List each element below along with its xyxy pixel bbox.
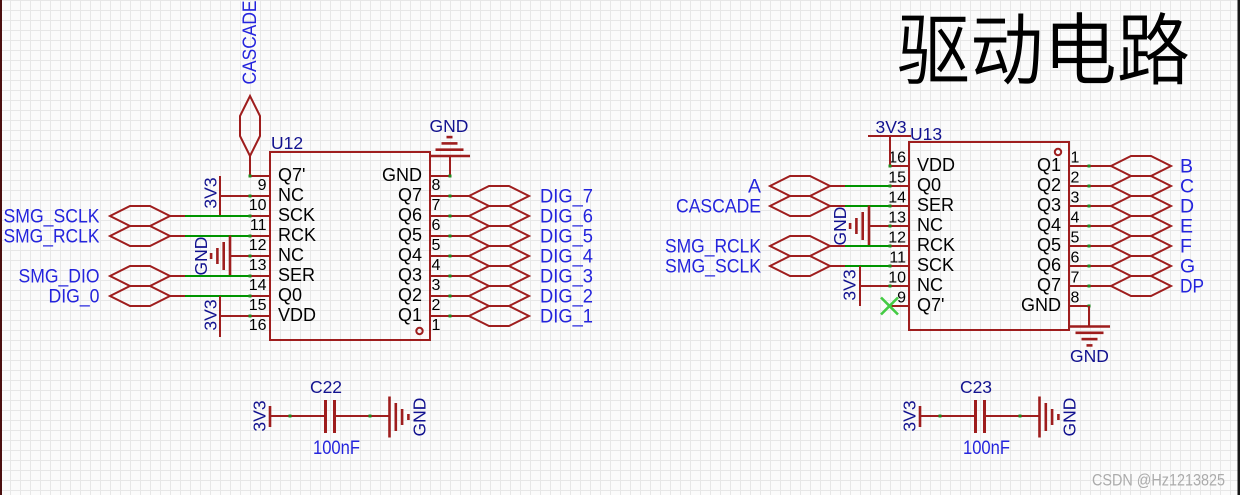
svg-text:11: 11 (889, 250, 906, 267)
svg-text:1: 1 (432, 317, 441, 334)
svg-text:SMG_SCLK: SMG_SCLK (665, 256, 761, 278)
svg-text:100nF: 100nF (963, 437, 1010, 459)
svg-text:GND: GND (410, 398, 430, 437)
svg-text:SMG_RCLK: SMG_RCLK (665, 236, 761, 258)
svg-text:DIG_5: DIG_5 (540, 226, 593, 248)
svg-text:10: 10 (249, 197, 267, 214)
svg-text:SMG_RCLK: SMG_RCLK (4, 226, 100, 248)
svg-text:10: 10 (888, 270, 906, 287)
svg-text:2: 2 (432, 297, 441, 314)
svg-text:CSDN @Hz1213825: CSDN @Hz1213825 (1092, 471, 1225, 490)
svg-text:Q4: Q4 (398, 245, 422, 265)
svg-text:Q2: Q2 (1037, 175, 1061, 195)
svg-text:3: 3 (1071, 190, 1080, 207)
svg-text:A: A (748, 176, 761, 198)
svg-text:14: 14 (249, 277, 267, 294)
svg-text:SER: SER (278, 265, 315, 285)
svg-text:15: 15 (888, 170, 906, 187)
svg-text:3V3: 3V3 (840, 269, 860, 300)
svg-text:Q1: Q1 (398, 305, 422, 325)
svg-text:3V3: 3V3 (201, 299, 221, 330)
svg-text:CASCADE: CASCADE (239, 1, 261, 85)
svg-text:GND: GND (382, 165, 422, 185)
svg-text:DIG_1: DIG_1 (540, 306, 593, 328)
svg-text:6: 6 (1071, 250, 1080, 267)
svg-text:VDD: VDD (278, 305, 316, 325)
svg-text:B: B (1180, 156, 1193, 178)
svg-text:U12: U12 (271, 133, 303, 153)
svg-text:16: 16 (249, 317, 267, 334)
svg-text:Q3: Q3 (1037, 195, 1061, 215)
svg-text:11: 11 (250, 217, 267, 234)
svg-text:Q6: Q6 (398, 205, 422, 225)
svg-text:GND: GND (191, 237, 211, 276)
svg-text:Q1: Q1 (1037, 155, 1061, 175)
svg-text:SER: SER (917, 195, 954, 215)
svg-text:Q2: Q2 (398, 285, 422, 305)
svg-text:RCK: RCK (278, 225, 316, 245)
svg-text:14: 14 (888, 190, 906, 207)
svg-text:RCK: RCK (917, 235, 955, 255)
svg-text:GND: GND (1070, 346, 1109, 366)
svg-text:3V3: 3V3 (250, 400, 270, 431)
svg-text:SCK: SCK (278, 205, 315, 225)
svg-text:F: F (1180, 236, 1192, 258)
svg-text:SMG_SCLK: SMG_SCLK (4, 206, 100, 228)
svg-text:Q5: Q5 (398, 225, 422, 245)
svg-text:VDD: VDD (917, 155, 955, 175)
svg-text:3V3: 3V3 (201, 177, 221, 208)
svg-text:DIG_0: DIG_0 (49, 286, 100, 308)
svg-text:E: E (1180, 216, 1193, 238)
svg-text:5: 5 (432, 237, 441, 254)
svg-text:SCK: SCK (917, 255, 954, 275)
svg-text:Q3: Q3 (398, 265, 422, 285)
svg-text:GND: GND (1060, 398, 1080, 437)
svg-text:DIG_7: DIG_7 (540, 186, 593, 208)
svg-text:3V3: 3V3 (876, 117, 907, 137)
svg-text:DIG_2: DIG_2 (540, 286, 593, 308)
svg-text:Q4: Q4 (1037, 215, 1061, 235)
svg-text:D: D (1180, 196, 1194, 218)
svg-text:Q0: Q0 (917, 175, 941, 195)
svg-text:12: 12 (249, 237, 267, 254)
svg-text:7: 7 (432, 197, 441, 214)
svg-text:Q7': Q7' (917, 295, 944, 315)
svg-text:Q5: Q5 (1037, 235, 1061, 255)
svg-text:NC: NC (278, 245, 304, 265)
svg-text:3: 3 (432, 277, 441, 294)
svg-text:DIG_4: DIG_4 (540, 246, 593, 268)
svg-text:GND: GND (430, 116, 469, 136)
svg-text:100nF: 100nF (313, 437, 360, 459)
svg-text:8: 8 (432, 177, 441, 194)
svg-text:U13: U13 (910, 124, 942, 144)
svg-text:DP: DP (1180, 276, 1204, 298)
svg-text:7: 7 (1071, 270, 1080, 287)
svg-text:4: 4 (1071, 210, 1080, 227)
svg-text:C23: C23 (960, 377, 992, 397)
svg-text:Q0: Q0 (278, 285, 302, 305)
svg-text:DIG_3: DIG_3 (540, 266, 593, 288)
svg-text:5: 5 (1071, 230, 1080, 247)
svg-text:3V3: 3V3 (900, 400, 920, 431)
svg-text:2: 2 (1071, 170, 1080, 187)
svg-text:SMG_DIO: SMG_DIO (19, 266, 100, 288)
svg-text:6: 6 (432, 217, 441, 234)
svg-text:9: 9 (258, 177, 267, 194)
svg-text:13: 13 (249, 257, 267, 274)
svg-text:G: G (1180, 256, 1195, 278)
svg-text:8: 8 (1071, 290, 1080, 307)
svg-text:Q7: Q7 (398, 185, 422, 205)
svg-text:NC: NC (278, 185, 304, 205)
svg-text:1: 1 (1071, 150, 1080, 167)
svg-text:DIG_6: DIG_6 (540, 206, 593, 228)
svg-text:CASCADE: CASCADE (676, 196, 761, 218)
svg-text:NC: NC (917, 215, 943, 235)
svg-text:Q7': Q7' (278, 165, 305, 185)
svg-text:C22: C22 (310, 377, 342, 397)
svg-text:GND: GND (830, 207, 850, 246)
svg-text:13: 13 (888, 210, 906, 227)
svg-text:15: 15 (249, 297, 267, 314)
svg-text:GND: GND (1021, 295, 1061, 315)
svg-text:NC: NC (917, 275, 943, 295)
svg-text:Q7: Q7 (1037, 275, 1061, 295)
svg-text:4: 4 (432, 257, 441, 274)
svg-text:Q6: Q6 (1037, 255, 1061, 275)
svg-text:C: C (1180, 176, 1194, 198)
svg-text:12: 12 (888, 230, 906, 247)
